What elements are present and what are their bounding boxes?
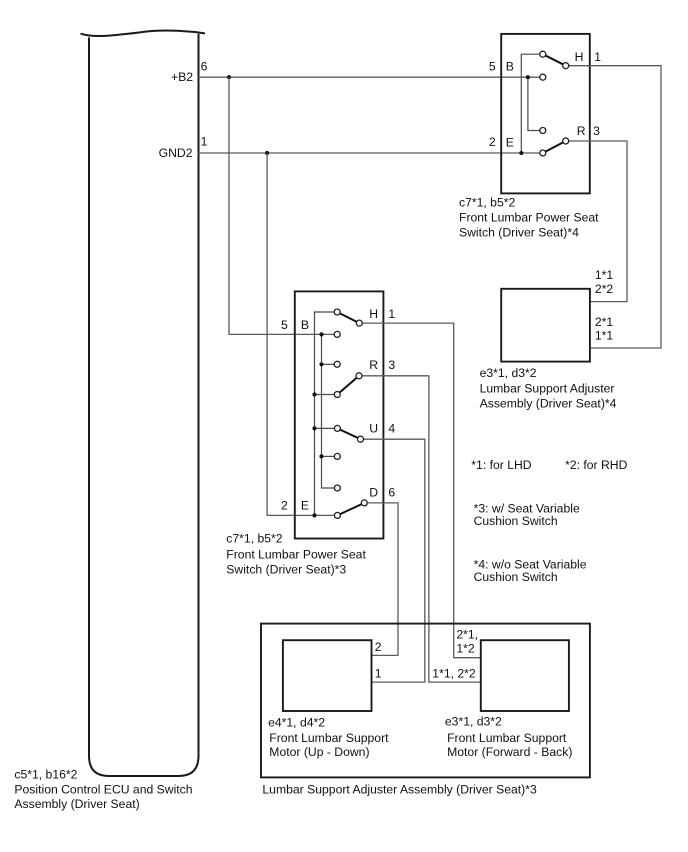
svg-text:Front Lumbar Power Seat: Front Lumbar Power Seat <box>226 548 366 562</box>
wire SW2 pin 4 (U) to Front Lumbar Support Motor (Up - Down) pin 1 <box>361 439 425 682</box>
svg-text:Cushion Switch: Cushion Switch <box>474 514 558 528</box>
svg-text:1: 1 <box>594 50 601 64</box>
motor M2: Front Lumbar Support Motor (Forward - Back) box <box>481 640 569 711</box>
svg-text:c7*1, b5*2: c7*1, b5*2 <box>226 532 282 546</box>
svg-text:e4*1, d4*2: e4*1, d4*2 <box>268 715 325 729</box>
wire SW2 pin 3 (R) to Front Lumbar Support Motor (Forward - Back) lower pin <box>359 376 481 682</box>
SW1 junction on E bus <box>519 151 523 155</box>
wire GND2 from ECU pin 1 to Front Lumbar Power Seat Switch *4 pin 2 (E) <box>198 152 543 154</box>
SW2 switch arm U <box>337 428 360 439</box>
SW2 contact B bus upper <box>334 361 340 367</box>
SW1 E bus line <box>521 54 543 153</box>
svg-text:+B2: +B2 <box>171 70 193 84</box>
switch SW2: Front Lumbar Power Seat Switch (Driver Seat)*3 box <box>295 291 384 538</box>
svg-text:B: B <box>506 60 514 74</box>
SW2 junction B bus lower stub <box>319 454 323 458</box>
svg-text:1*2: 1*2 <box>456 641 475 655</box>
SW1 throw contact pin 1 <box>563 63 569 69</box>
wire SW2 pin 1 (H) to Front Lumbar Support Motor (Forward - Back) upper pin <box>359 323 481 658</box>
wire SW1 pin 1 (H) to Lumbar Support Adjuster Assembly *4 <box>566 66 661 348</box>
svg-text:5: 5 <box>489 60 496 74</box>
SW1 B bus line <box>528 77 543 130</box>
SW1 contact on B bus end <box>540 128 546 134</box>
svg-text:1: 1 <box>375 667 382 681</box>
SW2 junction E bus contact U <box>312 426 316 430</box>
svg-text:R: R <box>369 358 378 372</box>
svg-text:Lumbar Support Adjuster Assemb: Lumbar Support Adjuster Assembly (Driver… <box>262 782 537 796</box>
SW2 junction B bus upper stub <box>319 362 323 366</box>
svg-text:e3*1, d3*2: e3*1, d3*2 <box>480 366 537 380</box>
SW1 contact on B at pin level <box>540 74 546 80</box>
Lumbar Support Adjuster Assembly (Driver Seat)*4 box <box>501 289 590 362</box>
svg-text:3: 3 <box>388 358 395 372</box>
SW2 junction E bus at pin E <box>312 513 316 517</box>
junction on +B2 wire <box>227 75 231 79</box>
svg-text:Front Lumbar Support: Front Lumbar Support <box>447 731 567 745</box>
SW1 switch arm H <box>543 54 566 65</box>
svg-text:Front Lumbar Support: Front Lumbar Support <box>269 731 389 745</box>
svg-text:6: 6 <box>388 486 395 500</box>
svg-text:U: U <box>369 422 378 436</box>
svg-text:D: D <box>369 486 378 500</box>
wire +B2 from ECU pin 6 to Front Lumbar Power Seat Switch *4 pin 5 (B) <box>198 76 543 78</box>
svg-text:Assembly (Driver Seat)*4: Assembly (Driver Seat)*4 <box>480 397 617 411</box>
svg-text:2: 2 <box>375 640 382 654</box>
svg-text:1*1, 2*2: 1*1, 2*2 <box>432 667 476 681</box>
SW2 contact D moving on E <box>334 512 340 518</box>
SW2 switch arm H <box>337 312 359 323</box>
SW2 contact R moving <box>334 392 340 398</box>
svg-text:B: B <box>301 318 309 332</box>
SW2 junction E bus contact R <box>312 392 316 396</box>
svg-text:Cushion Switch: Cushion Switch <box>474 570 558 584</box>
svg-text:*1: for LHD: *1: for LHD <box>471 458 531 472</box>
SW2 stub to contact from B bus lower <box>322 455 338 457</box>
SW2 contact on B at pin level <box>334 331 340 337</box>
wire +B2 branch down to Front Lumbar Power Seat Switch *3 pin 5 (B) <box>229 77 337 334</box>
SW2 stub to contact from B bus <box>322 363 338 365</box>
wire SW2 pin 6 (D) to Front Lumbar Support Motor (Up - Down) pin 2 <box>364 503 398 656</box>
svg-text:4: 4 <box>388 422 395 436</box>
svg-text:H: H <box>575 50 584 64</box>
svg-text:Position Control ECU and Switc: Position Control ECU and Switch <box>14 783 192 797</box>
svg-text:1*1: 1*1 <box>595 329 614 343</box>
SW2 throw contact pin 6 <box>361 500 367 506</box>
Lumbar Support Adjuster Assembly (Driver Seat)*3 outer box <box>261 624 590 778</box>
svg-text:2*1,: 2*1, <box>456 628 478 642</box>
svg-text:2: 2 <box>489 135 496 149</box>
SW2 contact U moving <box>334 425 340 431</box>
svg-text:6: 6 <box>201 60 208 74</box>
svg-text:GND2: GND2 <box>159 146 193 160</box>
SW2 switch arm R <box>337 376 359 395</box>
svg-text:1: 1 <box>201 135 208 149</box>
SW2 throw contact pin 4 <box>358 436 364 442</box>
svg-text:c7*1, b5*2: c7*1, b5*2 <box>459 196 515 210</box>
svg-text:c5*1, b16*2: c5*1, b16*2 <box>14 768 77 782</box>
svg-text:5: 5 <box>281 318 288 332</box>
svg-text:Motor (Forward - Back): Motor (Forward - Back) <box>447 745 572 759</box>
svg-text:2: 2 <box>281 498 288 512</box>
ECU torn-edge wavy top <box>81 30 206 36</box>
SW1 junction on B bus <box>526 75 530 79</box>
svg-text:H: H <box>369 307 378 321</box>
motor M1: Front Lumbar Support Motor (Up - Down) box <box>283 640 372 711</box>
svg-text:Switch (Driver Seat)*3: Switch (Driver Seat)*3 <box>226 563 346 577</box>
svg-text:E: E <box>506 136 514 150</box>
SW2 throw contact pin 3 <box>356 373 362 379</box>
svg-text:R: R <box>577 124 586 138</box>
svg-text:Front Lumbar Power Seat: Front Lumbar Power Seat <box>459 211 599 225</box>
SW2 switch arm D <box>337 503 364 516</box>
SW2 contact B bus end <box>334 485 340 491</box>
SW2 stub to contact U from E bus <box>315 427 338 429</box>
svg-text:2*2: 2*2 <box>595 282 614 296</box>
wire GND2 branch down to Front Lumbar Power Seat Switch *3 pin 2 (E) <box>267 153 337 515</box>
SW1 throw contact pin 3 <box>563 138 569 144</box>
svg-text:1: 1 <box>388 307 395 321</box>
svg-text:3: 3 <box>593 124 600 138</box>
SW1 contact on E at pin level <box>540 150 546 156</box>
SW1 contact H top <box>540 51 546 57</box>
svg-text:Motor (Up - Down): Motor (Up - Down) <box>269 745 369 759</box>
SW2 throw contact pin 1 <box>356 320 362 326</box>
SW1 switch arm R <box>543 141 566 153</box>
svg-text:Lumbar Support Adjuster: Lumbar Support Adjuster <box>480 381 615 395</box>
SW2 contact B bus lower <box>334 453 340 459</box>
SW2 stub to contact R from E bus <box>315 394 338 396</box>
svg-text:2*1: 2*1 <box>595 315 614 329</box>
SW2 contact H top <box>334 309 340 315</box>
SW2 B bus line <box>322 334 338 488</box>
svg-text:*2: for RHD: *2: for RHD <box>565 458 628 472</box>
svg-text:E: E <box>301 498 309 512</box>
svg-text:Assembly (Driver Seat): Assembly (Driver Seat) <box>14 797 139 811</box>
ECU box: Position Control ECU and Switch Assembly (Driver Seat) <box>89 34 199 776</box>
switch SW1: Front Lumbar Power Seat Switch (Driver Seat)*4 box <box>501 34 590 194</box>
SW2 E bus line <box>315 312 338 515</box>
svg-text:Switch (Driver Seat)*4: Switch (Driver Seat)*4 <box>459 226 579 240</box>
svg-text:e3*1, d3*2: e3*1, d3*2 <box>445 715 502 729</box>
svg-text:1*1: 1*1 <box>595 268 614 282</box>
wire SW1 pin 3 (R) to Lumbar Support Adjuster Assembly *4 <box>566 141 627 302</box>
junction on GND2 wire <box>265 151 269 155</box>
SW2 junction B bus at pin B <box>319 332 323 336</box>
